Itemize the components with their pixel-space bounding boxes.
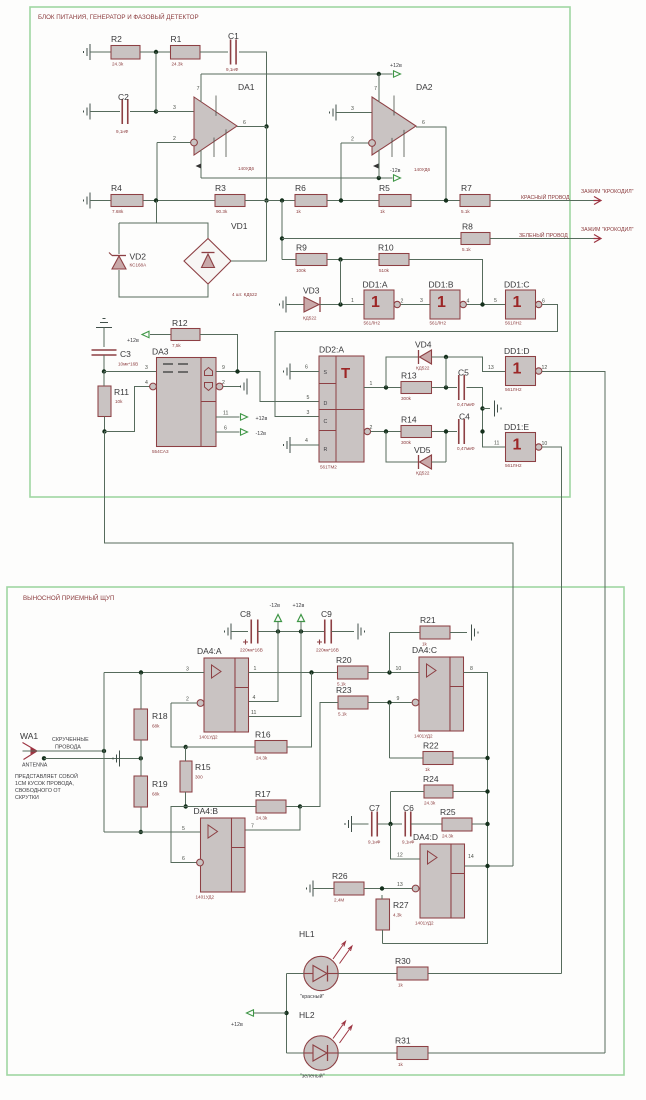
svg-text:68k: 68k [152,792,160,797]
wire bridge top [119,223,208,239]
wire pin9 down to R22 [389,703,391,759]
svg-text:VD3: VD3 [303,286,320,296]
svg-text:6: 6 [305,365,308,371]
ground (earth) above C3 [96,319,112,328]
wire pin 14 output [465,865,514,867]
node DA2 pin7 [377,72,381,76]
flip-flop DD2:A [319,345,364,470]
wire Q-bar output [371,431,401,433]
wire HL2 left [287,1052,305,1054]
capacitor C5 [457,368,475,408]
svg-text:3: 3 [307,410,310,416]
svg-text:1: 1 [351,298,354,304]
svg-text:6: 6 [224,426,227,432]
svg-text:ВЫНОСНОЙ ПРИЕМНЫЙ ЩУП: ВЫНОСНОЙ ПРИЕМНЫЙ ЩУП [23,594,114,602]
node R15/R17/pin6 [184,804,188,808]
wire down to C7/C6 row [390,792,392,825]
svg-text:DD2:A: DD2:A [319,345,344,355]
logic inverter DD1:A [363,280,404,326]
node R22/output column [485,756,489,760]
wire bridge bottom [119,270,208,297]
svg-text:300: 300 [195,775,203,780]
DD2 inverted output circle [364,428,370,434]
wire to bridge loop [156,201,158,224]
LED HL2 [299,1010,352,1080]
wire HL1 to R30 [338,973,397,975]
svg-text:R10: R10 [378,243,394,253]
svg-text:C9: C9 [321,609,332,619]
DA1 pin2 inverting input circle [191,139,198,146]
svg-text:7.68k: 7.68k [112,209,124,214]
wire pin2 to R6/R5 node [340,143,342,201]
svg-text:D: D [324,401,328,407]
wire [411,823,442,825]
wire to ground [483,408,491,410]
svg-text:554СА3: 554СА3 [152,449,169,454]
svg-text:12: 12 [397,853,403,859]
wire [352,823,369,825]
svg-text:HL2: HL2 [299,1010,315,1020]
svg-text:1k: 1k [380,209,386,214]
wire [103,328,105,348]
svg-text:DA3: DA3 [152,347,169,357]
DA4:C pin9 circle [412,699,419,706]
wire red lead [490,200,594,202]
resistor R25 [440,807,472,839]
svg-text:VD4: VD4 [415,340,432,350]
svg-text:ЗАЖИМ "КРОКОДИЛ": ЗАЖИМ "КРОКОДИЛ" [581,189,634,195]
svg-text:R9: R9 [296,243,307,253]
resistor R1 [171,34,201,67]
wire DD2 pin R [290,444,319,446]
wire DD1:E output long vertical [542,447,561,974]
svg-text:11: 11 [494,441,499,447]
svg-text:2: 2 [222,380,225,386]
wire green lead [490,238,594,240]
svg-text:"зеленый": "зеленый" [300,1073,325,1080]
wire R18 top [140,673,142,710]
DA2 pin2 inverting input circle [369,140,376,147]
op-amp DA4:B [194,806,246,900]
svg-text:9,1нФ: 9,1нФ [116,129,129,134]
wire R16 to output node [287,673,312,748]
wire antenna top [23,750,105,752]
svg-text:R5: R5 [379,183,390,193]
wire [453,791,488,793]
svg-text:2: 2 [173,136,176,142]
wire [200,150,202,178]
svg-text:24.3k: 24.3k [424,801,436,806]
node Q-bar [384,429,388,433]
svg-text:T: T [341,365,350,382]
svg-text:9: 9 [397,696,400,702]
wire R23 to pin 9 [368,702,412,704]
diode bridge VD1 [184,221,258,297]
node VD4/R13 [444,355,448,359]
svg-text:R2: R2 [111,34,122,44]
wire DA4:C output column [383,673,488,944]
wire [143,200,170,202]
svg-text:1401УД2: 1401УД2 [414,734,433,739]
wire -12V to DA4 pin 4 [249,632,279,702]
wire [245,200,295,202]
wire [378,823,403,825]
resistor R19 [134,776,168,807]
svg-text:R17: R17 [255,789,271,799]
wire [103,355,105,372]
resistor R5 [379,183,411,214]
op-amp DA4:D [413,832,465,926]
wire Q output [364,387,401,389]
wire [472,823,488,825]
svg-text:3: 3 [351,106,354,112]
wire A out to B in [401,304,430,306]
node ground tap [480,406,484,410]
resistor R7 [460,183,490,214]
+12V supply arrow [394,71,401,77]
wire [432,431,458,433]
svg-text:R13: R13 [401,371,417,381]
node R11 bottom [102,429,106,433]
ground [330,105,337,121]
capacitor C2 [116,92,129,134]
node R9/R10 [338,257,342,261]
wire left to VD2 [118,223,120,254]
svg-text:7: 7 [251,824,254,830]
svg-text:5.1k: 5.1k [461,209,470,214]
svg-text:СКРУЧЕННЫЕ: СКРУЧЕННЫЕ [52,737,89,743]
wire [231,631,248,633]
node R10 tap [480,302,484,306]
svg-text:ПРОВОДА: ПРОВОДА [55,745,81,751]
svg-text:1k: 1k [296,209,302,214]
svg-text:5: 5 [494,298,497,304]
wire DA3 pin 2 [223,386,241,388]
wire R27 top stub [381,895,383,899]
svg-text:10: 10 [396,666,402,672]
svg-text:561ЛН2: 561ЛН2 [505,463,522,468]
svg-text:7: 7 [374,86,377,92]
antenna WA1 [20,731,48,769]
resistor R26 [332,871,364,903]
svg-text:24.3k: 24.3k [172,62,184,67]
svg-text:24.3k: 24.3k [112,62,124,67]
wire [390,632,421,634]
svg-text:1СМ КУСОК ПРОВОДА,: 1СМ КУСОК ПРОВОДА, [15,781,74,787]
svg-text:13: 13 [488,365,494,371]
+12V supply arrow [298,615,305,622]
svg-text:R25: R25 [440,807,456,817]
svg-text:4,3k: 4,3k [393,913,402,918]
svg-text:ПРЕДСТАВЛЯЕТ СОБОЙ: ПРЕДСТАВЛЯЕТ СОБОЙ [15,772,78,780]
svg-text:1k: 1k [398,1062,404,1067]
svg-text:R22: R22 [423,741,439,751]
svg-text:5: 5 [307,395,310,401]
svg-text:R18: R18 [152,711,168,721]
wire [103,372,105,387]
wire VD4 to DD1:D input [432,357,506,372]
node R15/R16/pin2 [184,745,188,749]
wire to DA1 pin 3 [156,111,194,113]
wire R23 to DA4:B output node [300,703,338,807]
wire R17 row [186,806,256,808]
svg-text:220мк*16В: 220мк*16В [316,648,339,653]
ground antenna [113,750,120,766]
svg-text:1401УД2: 1401УД2 [199,735,218,740]
svg-text:1: 1 [371,294,380,311]
wire DA2 output pin 6 down [416,127,446,201]
svg-text:3: 3 [420,298,423,304]
node pin10/R21 [387,670,391,674]
wire R24 left [391,791,425,793]
wire [140,51,171,53]
svg-text:R16: R16 [255,730,271,740]
svg-text:R: R [324,447,328,453]
svg-text:DD1:E: DD1:E [504,422,529,432]
wire Q up to VD4 [386,357,419,388]
node R17/pin7/R23 [298,804,302,808]
wire C out to DD2 clock [275,305,558,417]
svg-text:14: 14 [468,854,474,860]
svg-text:C8: C8 [240,609,251,619]
wire to pin 12 [391,824,421,859]
svg-text:ЗЕЛЕНЫЙ ПРОВОД: ЗЕЛЕНЫЙ ПРОВОД [519,231,568,239]
wire to DA4:B pin 5 [104,831,201,833]
resistor R17 [255,789,286,821]
svg-text:4: 4 [467,299,470,305]
svg-text:WA1: WA1 [20,731,38,741]
wire R19 bottom [140,807,142,832]
svg-text:+12в: +12в [231,1022,243,1028]
wire B out to C in [467,304,506,306]
svg-text:DA4:D: DA4:D [413,832,438,842]
svg-text:R11: R11 [114,387,129,397]
wire DD2 pin S [290,370,319,372]
svg-text:1401УД2: 1401УД2 [196,895,215,900]
svg-text:R23: R23 [336,685,352,695]
svg-text:2: 2 [370,425,373,431]
DA4:A pin2 circle [197,700,204,707]
node R16 branch [309,670,313,674]
wire C5 right / ground column to DD1:E [467,388,506,448]
capacitor C4 [457,412,475,452]
ground DD2 S [284,363,291,379]
wire [200,51,228,53]
ground C9 [358,624,365,640]
wire bridge to feedback column [231,260,267,262]
svg-text:+12в: +12в [390,63,402,69]
svg-text:VD1: VD1 [231,221,248,231]
svg-text:3: 3 [186,667,189,673]
svg-text:5: 5 [182,826,185,832]
op-amp DA2 [372,82,433,172]
svg-text:24.3k: 24.3k [256,756,268,761]
wire to +12V arrow [254,1012,287,1014]
svg-text:4: 4 [305,438,308,444]
diode VD3 [303,286,320,321]
svg-text:R20: R20 [336,655,352,665]
node Q [384,385,388,389]
svg-text:11: 11 [223,411,228,417]
node DA2 pin2 branch [339,198,343,202]
node C2 / DA1 pin3 [154,109,158,113]
svg-text:1: 1 [254,666,257,672]
node C3/R11/DA3.3 [102,369,106,373]
svg-text:C6: C6 [403,803,414,813]
svg-text:R26: R26 [332,871,348,881]
node R27 top [380,886,384,890]
-12V supply arrow [275,615,282,622]
resistor R27 [376,899,409,930]
wire DA3 pin 6 [216,431,240,433]
wire [378,74,380,102]
green lead arrow [594,235,602,243]
diode VD5 [414,445,432,476]
svg-text:КД522: КД522 [416,366,430,371]
wire pin 2 [171,702,197,704]
svg-text:2: 2 [351,137,354,143]
wire [453,757,488,759]
wire DA3 pin 11 [216,416,240,418]
svg-text:C2: C2 [118,92,129,102]
svg-text:C1: C1 [228,31,239,41]
wire [286,304,304,306]
C9 plus sign [317,640,322,645]
ground C8 [225,624,232,640]
svg-text:2,4М: 2,4М [334,898,344,903]
wire to DA3 pin 3 [104,371,157,373]
svg-text:11: 11 [251,710,256,716]
svg-text:220мк*16В: 220мк*16В [240,648,263,653]
resistor R3 [215,183,245,214]
comparator DA3 [150,347,223,455]
svg-text:DD1:D: DD1:D [504,346,530,356]
resistor R8 [461,222,490,253]
node pin9/R12 [235,369,239,373]
svg-text:1k: 1k [425,767,431,772]
wire +12V to DA4 pin 11 [249,632,302,717]
svg-text:"красный": "красный" [300,993,324,1000]
svg-text:6: 6 [182,856,185,862]
wire DD1:D output long vertical [542,372,605,1054]
wire [313,888,334,890]
node [102,749,106,753]
wire DA3 input to probe output [105,432,514,867]
wire C1 to DA1 output (feedback) [239,52,267,127]
svg-text:R4: R4 [111,183,122,193]
svg-text:R14: R14 [401,415,417,425]
svg-text:10k: 10k [115,399,123,404]
resistor R30 [395,956,428,988]
wire pin2 loop down [171,703,186,747]
node R8 [280,236,284,240]
svg-text:R19: R19 [152,779,168,789]
node R18 top [139,670,143,674]
svg-text:2: 2 [186,697,189,703]
svg-text:100k: 100k [296,268,307,273]
svg-text:КД522: КД522 [303,316,317,321]
svg-text:R12: R12 [172,318,188,328]
diode VD4 [415,340,432,371]
svg-text:СВОБОДНОГО ОТ: СВОБОДНОГО ОТ [15,788,62,794]
wire C8-C9 row [258,631,324,633]
svg-text:R6: R6 [295,183,306,193]
+12V supply arrow [247,1010,254,1016]
wire DA3 pin9 to DD2 D [216,372,319,402]
svg-text:6: 6 [243,120,246,126]
wire pin2 to R4/R3 node [156,143,158,201]
svg-text:9: 9 [222,365,225,371]
resistor R4 [111,183,143,214]
svg-text:КД522: КД522 [416,471,430,476]
svg-text:R3: R3 [215,183,226,193]
antenna second terminal [42,756,46,760]
wire [390,757,424,759]
node R24 right [485,789,489,793]
svg-text:+12в: +12в [293,603,305,609]
svg-text:1k: 1k [398,983,404,988]
node +12V LEDs [284,1011,288,1015]
svg-text:R1: R1 [171,34,182,44]
svg-text:24.3k: 24.3k [256,816,268,821]
svg-text:561ЛН2: 561ЛН2 [505,387,522,392]
svg-text:-12в: -12в [256,431,267,437]
svg-text:C5: C5 [458,368,469,378]
svg-text:R15: R15 [195,762,211,772]
wire [150,334,171,336]
wire [286,806,300,808]
svg-text:C3: C3 [120,349,131,359]
capacitor C8 [251,620,258,644]
svg-text:DD1:C: DD1:C [504,280,530,290]
wire [327,200,379,202]
resistor R16 [255,730,287,761]
svg-text:ЗАЖИМ "КРОКОДИЛ": ЗАЖИМ "КРОКОДИЛ" [581,227,634,233]
svg-text:КС168А: КС168А [130,263,148,268]
svg-text:R31: R31 [395,1036,411,1046]
wire node down [340,260,342,305]
svg-text:1: 1 [437,294,446,311]
-12V supply arrow [394,175,401,181]
wire [90,51,111,53]
wire antenna to pin 3 [104,672,204,674]
wire antenna bottom [44,757,141,759]
wire [432,461,447,463]
wire R12 to DA3 pin9 node [200,335,238,372]
wire R10 to DD1:B output node [409,260,483,305]
resistor R15 [180,761,211,792]
wire [320,304,364,306]
node R4/R3/pin2 [154,198,158,202]
svg-text:8: 8 [470,666,473,672]
resistor R2 [111,34,140,67]
svg-text:9,1нФ: 9,1нФ [368,840,381,845]
wire R26 to pin 13 [364,888,412,890]
resistor R18 [134,709,168,740]
wire R21 riser [389,633,391,673]
svg-text:510k: 510k [379,268,390,273]
logic inverter DD1:D [504,346,547,392]
svg-text:3: 3 [145,365,148,371]
svg-text:3: 3 [173,105,176,111]
wire [186,746,255,748]
wire HL1 left [287,973,305,975]
svg-text:13: 13 [397,882,403,888]
ground C7 [345,816,352,832]
node R24/pin12 [388,822,392,826]
wire DA1 output pin 6 [237,126,267,128]
svg-text:КРАСНЫЙ ПРОВОД: КРАСНЫЙ ПРОВОД [521,193,570,201]
